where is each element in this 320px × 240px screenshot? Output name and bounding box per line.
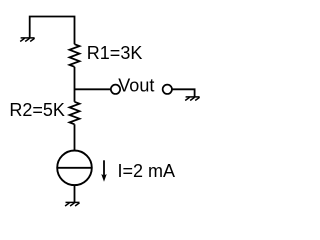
svg-text:R2=5K: R2=5K <box>9 100 65 120</box>
svg-text:I=2 mA: I=2 mA <box>118 161 176 181</box>
svg-text:Vout: Vout <box>118 76 154 96</box>
svg-text:R1=3K: R1=3K <box>87 43 143 63</box>
